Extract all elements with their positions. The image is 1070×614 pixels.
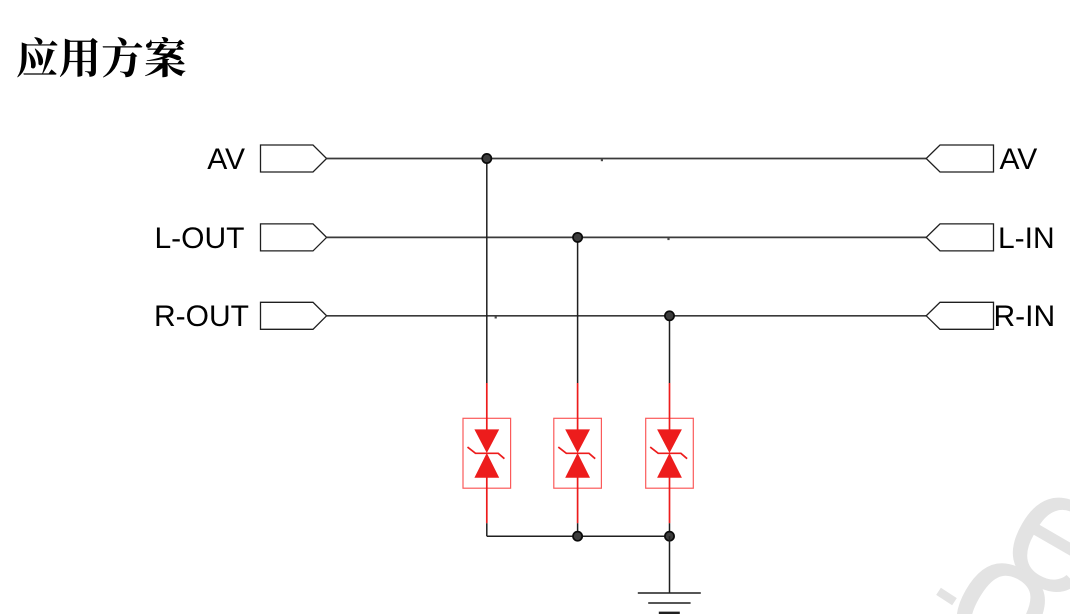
TVS diode box (red outline) at x=486.8 <box>463 418 511 488</box>
connector R-OUT left pentagon <box>261 302 327 329</box>
svg-text:AV: AV <box>1000 143 1038 176</box>
red wire through diode <box>486 383 488 430</box>
red wire through diode <box>669 383 671 430</box>
wire D1 bottom to bus <box>486 523 488 536</box>
wire R-OUT to R-IN <box>327 315 927 317</box>
TVS diode bidirectional symbol at x=577.6 <box>565 429 590 477</box>
wire tick artifact on AV line <box>601 159 603 161</box>
node junction dot L <box>573 233 582 242</box>
zener crossbar <box>558 447 595 459</box>
wire vertical from AV node down <box>486 159 488 384</box>
TVS diode bidirectional symbol at x=669.5 <box>657 429 682 477</box>
node junction dot bus-D2 <box>573 532 582 541</box>
wire D3 bottom to bus <box>669 523 671 536</box>
svg-text:L-IN: L-IN <box>998 222 1055 255</box>
svg-text:R-OUT: R-OUT <box>154 300 249 333</box>
wire tick artifact on R line <box>495 316 497 318</box>
TVS diode box (red outline) at x=577.6 <box>554 418 602 488</box>
TVS diode box (red outline) at x=669.5 <box>646 418 694 488</box>
ground symbol <box>638 592 701 594</box>
wire vertical from R node down <box>669 316 671 383</box>
connector AV right pentagon <box>926 145 993 172</box>
connector R-IN right pentagon <box>926 302 993 329</box>
watermark stroke fragment <box>936 588 957 606</box>
wire AV to AV <box>327 158 927 160</box>
node junction dot bus-D3 <box>665 532 674 541</box>
wire bus to ground <box>669 536 671 593</box>
node junction dot AV <box>482 154 491 163</box>
ground bus wire <box>487 535 670 537</box>
zener crossbar <box>468 447 505 459</box>
wire L-OUT to L-IN <box>327 236 927 238</box>
wire tick artifact on L line <box>667 238 669 240</box>
svg-text:L-OUT: L-OUT <box>155 222 245 255</box>
connector L-OUT left pentagon <box>261 224 327 251</box>
zener crossbar <box>650 447 687 459</box>
red wire through diode <box>577 383 579 430</box>
svg-text:AV: AV <box>207 143 245 176</box>
connector AV left pentagon <box>261 145 327 172</box>
TVS diode bidirectional symbol at x=486.8 <box>474 429 499 477</box>
svg-text:R-IN: R-IN <box>994 300 1056 333</box>
wire vertical from L node down <box>577 237 579 383</box>
connector L-IN right pentagon <box>926 224 993 251</box>
title 应用方案 <box>17 37 185 77</box>
wire D2 bottom to bus <box>577 523 579 536</box>
node junction dot R <box>665 311 674 320</box>
